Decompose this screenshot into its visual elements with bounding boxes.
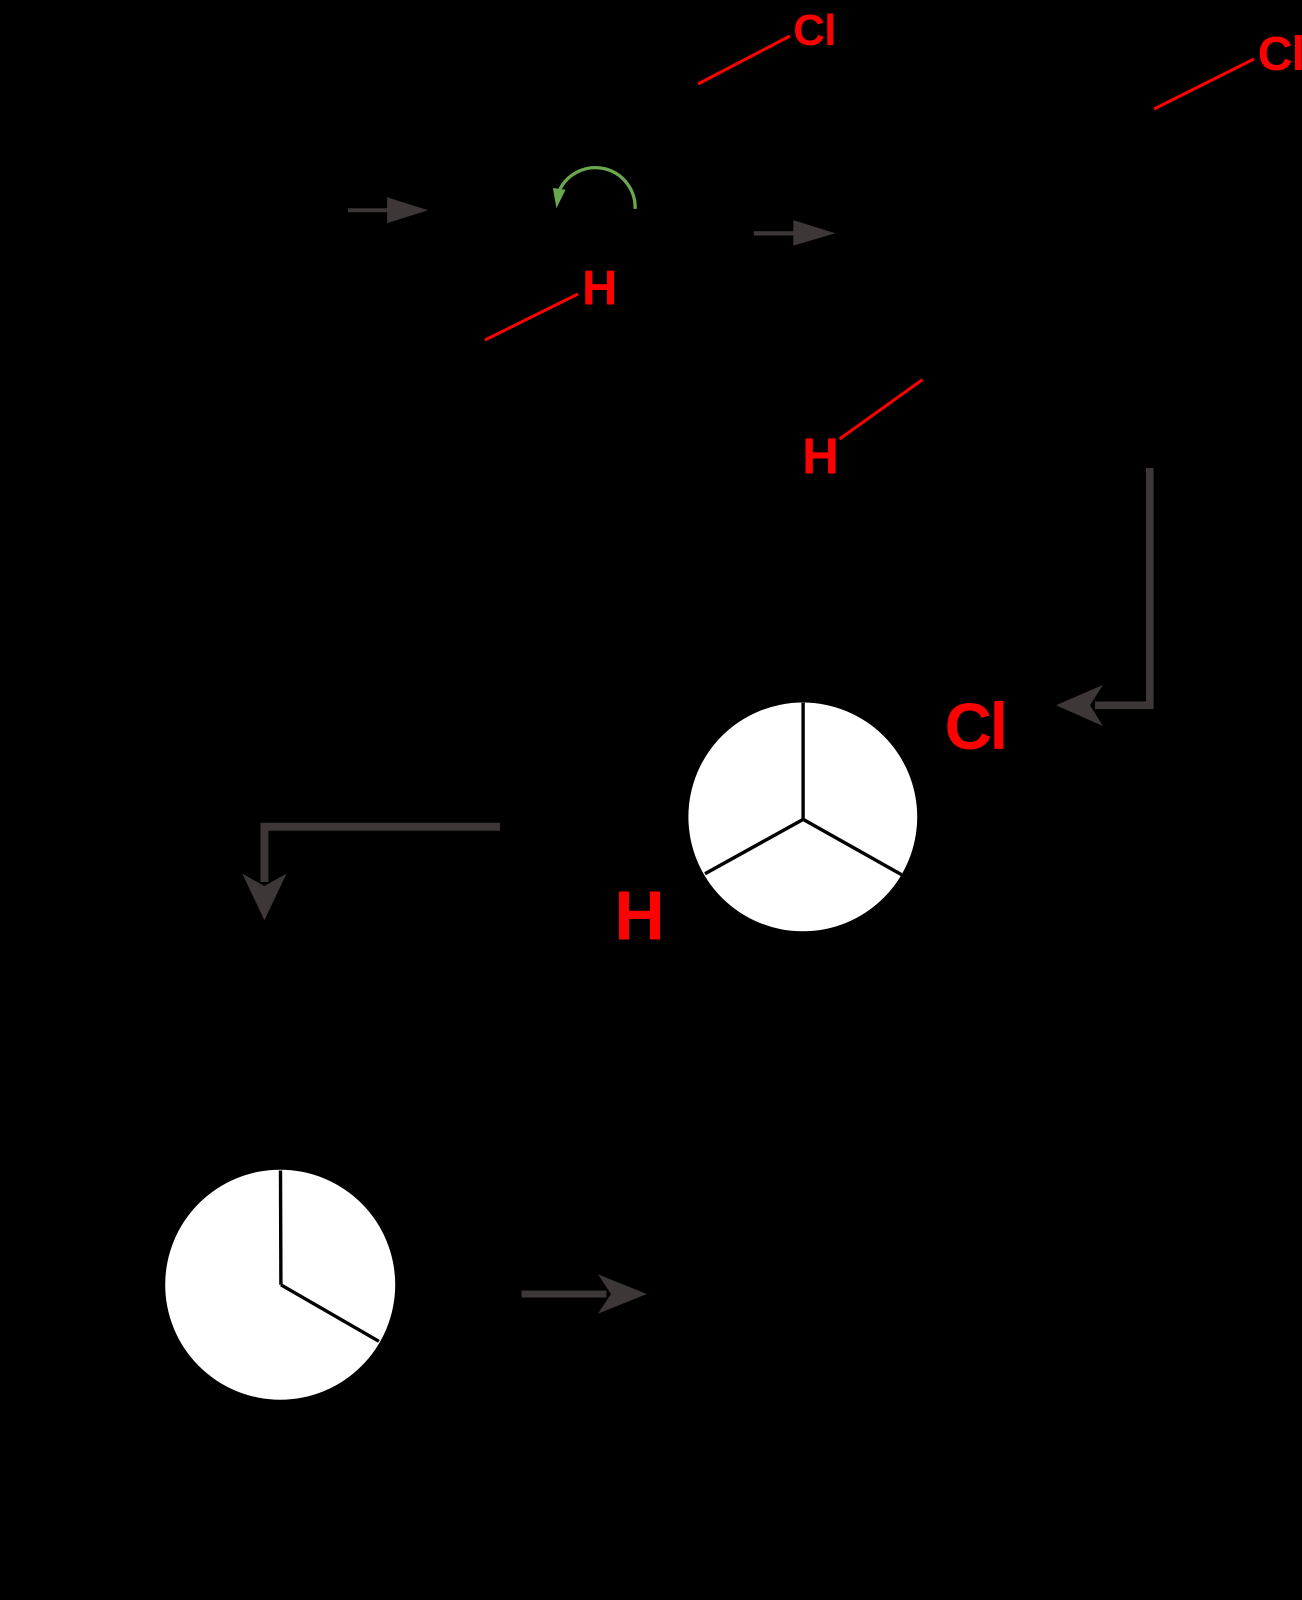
svg-text:H: H	[614, 877, 664, 955]
wire: Newman 2 front bond up	[279, 1171, 283, 1285]
wire: elbow arrow right (gray, down then left)	[1056, 468, 1150, 726]
wire: reaction arrow 2 (gray, left to right)	[754, 220, 836, 246]
wire: Newman 1 front bond lower-left	[705, 819, 803, 873]
node H: label of top-right structure	[802, 427, 839, 484]
svg-text:H: H	[802, 427, 839, 484]
wire: Newman 2 front bond lower-right	[281, 1285, 379, 1342]
node: Newman projection 2 circle (white, back atom)	[165, 1170, 395, 1400]
wire: Newman 1 front bond up	[801, 703, 804, 820]
node H: label of top-middle structure	[582, 261, 617, 315]
wire: elbow arrow left (gray, left then down)	[242, 827, 500, 921]
wire: C-Cl bond (red) of eclipsed structure, top right	[1154, 59, 1254, 109]
wire: C-H bond (red) of top-middle structure	[485, 294, 578, 340]
wire: Newman 1 front bond lower-right	[803, 819, 901, 874]
node: Newman projection 1 circle (white, back atom)	[688, 703, 917, 932]
wire: bond-rotation arc arrow (green, counterclockwise)	[553, 168, 635, 209]
svg-text:H: H	[582, 261, 617, 315]
node Cl: label of top-right structure	[1258, 27, 1302, 81]
wire: reaction arrow 3 (gray, left to right, stealth head)	[522, 1274, 647, 1314]
node Cl: label on Newman projection 1 (large red)	[945, 690, 1006, 763]
svg-text:Cl: Cl	[945, 690, 1006, 763]
wire: reaction arrow 1 (gray, left to right)	[348, 197, 428, 223]
svg-text:Cl: Cl	[1258, 27, 1302, 81]
node H: label on Newman projection 1 (large red)	[614, 877, 664, 955]
wire: C-H bond (red) of top-right structure	[840, 380, 923, 439]
node Cl: label of top-middle structure	[793, 6, 836, 55]
wire: C-Cl bond (red) of staggered structure, top middle	[698, 36, 790, 84]
svg-text:Cl: Cl	[793, 6, 836, 55]
